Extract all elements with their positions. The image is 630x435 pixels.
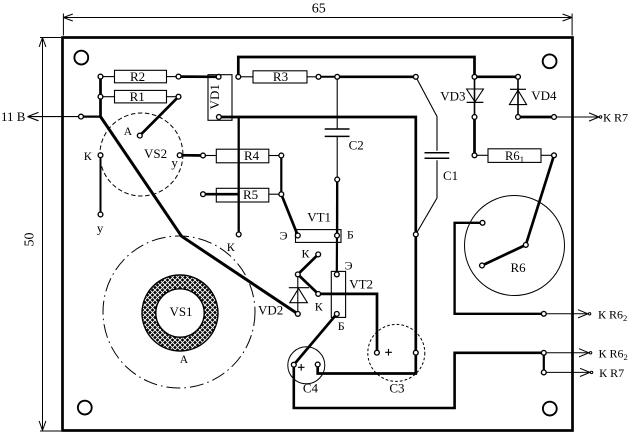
wire VD1 bottom bus: [219, 117, 416, 234]
svg-text:C3: C3: [389, 381, 404, 396]
pad VT1 emitter: [295, 233, 300, 238]
svg-text:Б: Б: [338, 319, 345, 333]
wire VS2 gate pads column: [100, 155, 102, 214]
pad K upper: [316, 252, 321, 257]
svg-text:65: 65: [312, 2, 326, 17]
pad R1 left: [98, 94, 103, 99]
svg-text:R2: R2: [130, 69, 145, 84]
wire K R7 arrow bottom: [544, 368, 593, 376]
pad output 3: [541, 370, 546, 375]
wire R3 pads link: [319, 76, 338, 78]
capacitor C2: [325, 77, 364, 180]
pad VD3 top: [472, 74, 477, 79]
pad VD4 top: [516, 74, 521, 79]
wire 11V input with arrow: [28, 112, 101, 120]
mounting hole top-left: [74, 51, 88, 65]
wire VT2 base to C4: [294, 314, 337, 365]
wire R5 to VT1 emitter: [281, 194, 298, 235]
pad C3 left: [375, 350, 380, 355]
pad R6 terminal b: [480, 263, 485, 268]
svg-text:R1: R1: [130, 89, 145, 104]
pad C4 left: [291, 362, 296, 367]
wire K R6.2 arrow 1: [544, 310, 591, 318]
resistor R1: [101, 89, 179, 104]
wire R6.1 to R6 wiper: [526, 155, 554, 245]
svg-text:К: К: [315, 299, 324, 313]
pad R3 left: [236, 74, 241, 79]
svg-text:А: А: [180, 354, 189, 366]
thyristor VS1 dash-dot outline: [103, 236, 255, 388]
pad K R7 top: [552, 115, 557, 120]
pad R4 right: [279, 153, 284, 158]
pad R6 terminal a: [480, 220, 485, 225]
wire R6 wiper to R6 terminal: [482, 245, 526, 266]
resistor R3: [238, 69, 318, 84]
diode VD3: [440, 77, 483, 117]
pad C4 right: [315, 362, 320, 367]
thyristor VS1 hatched mounting ring: [142, 275, 218, 351]
diode VD4: [509, 77, 557, 117]
svg-text:11 В: 11 В: [1, 109, 26, 124]
wire C2 to VT1 base: [336, 180, 339, 236]
mounting hole bottom-left: [78, 401, 92, 415]
wire VD3 top to VD4 top: [475, 75, 519, 78]
svg-text:К: К: [302, 247, 311, 261]
mounting hole bottom-right: [543, 402, 557, 416]
resistor R4: [203, 148, 281, 163]
pad output 2: [541, 350, 546, 355]
wire trace through R4 R5 to K via: [238, 117, 240, 234]
pad R4 left: [201, 153, 206, 158]
pad R6 wiper: [523, 243, 528, 248]
svg-text:К R62: К R62: [599, 346, 628, 362]
svg-text:Б: Б: [347, 228, 354, 242]
pad VD1 bottom: [217, 115, 222, 120]
pad C3 right: [413, 350, 418, 355]
dimension 50: [39, 38, 61, 432]
svg-text:R3: R3: [273, 69, 288, 84]
transistor VT2: [331, 271, 373, 317]
capacitor C3: [368, 324, 425, 395]
svg-text:VD2: VD2: [258, 303, 283, 318]
pad output 1: [541, 311, 546, 316]
thyristor VS2 dashed outline: [100, 113, 183, 196]
wire R1 to VS2 anode: [140, 97, 179, 136]
potentiometer R6 outline: [465, 196, 565, 296]
pad VS2 gate: [177, 153, 182, 158]
svg-text:А: А: [124, 126, 133, 138]
capacitor C4: [288, 347, 325, 396]
pad VS2 cathode: [98, 153, 103, 158]
pad R6.1 right: [552, 153, 557, 158]
svg-text:C2: C2: [349, 138, 364, 153]
pad R6.1 left: [472, 153, 477, 158]
wire R2 to VD1: [179, 75, 219, 78]
wire VD3 bottom to R6.1: [473, 117, 476, 155]
svg-text:50: 50: [23, 233, 38, 247]
svg-text:К R62: К R62: [598, 307, 627, 323]
pad VD1 top: [216, 74, 221, 79]
pad VT2 emitter: [334, 272, 339, 277]
svg-text:К: К: [84, 149, 93, 163]
pad C1 top: [413, 74, 418, 79]
pad R2 right: [176, 74, 181, 79]
svg-text:VD4: VD4: [531, 88, 557, 103]
pad C1 bottom: [413, 232, 418, 237]
svg-text:VT1: VT1: [307, 209, 331, 224]
pad R1 right: [176, 94, 181, 99]
pad R5 left: [201, 192, 206, 197]
diode VD2: [258, 274, 309, 317]
svg-text:Э: Э: [280, 229, 288, 243]
wire C4 minus to output: [294, 353, 544, 408]
transistor VT1: [296, 209, 342, 242]
pad R3 right a: [316, 74, 321, 79]
pad VT1 base: [335, 233, 340, 238]
svg-text:VS2: VS2: [144, 146, 167, 161]
svg-text:Э: Э: [345, 258, 353, 272]
pad zig middle: [295, 272, 300, 277]
svg-text:VT2: VT2: [349, 277, 373, 292]
wire main diagonal (VS1 cathode trace): [101, 117, 298, 314]
pad VD4 bottom: [516, 115, 521, 120]
svg-text:R4: R4: [244, 148, 260, 163]
pad VS2 anode: [137, 133, 142, 138]
pad VD3 bottom: [472, 115, 477, 120]
svg-text:C1: C1: [443, 168, 458, 183]
wire R4 to R5 right link: [280, 156, 282, 195]
svg-text:у: у: [97, 221, 104, 236]
dimension 65: [63, 14, 572, 36]
svg-text:К: К: [227, 240, 236, 254]
wire R5 left to center trace: [203, 193, 239, 196]
pad R2 left: [98, 74, 103, 79]
wire R3 to C1 node: [337, 75, 416, 78]
wire VD4 bottom to K R7 pad: [518, 116, 554, 119]
wire top bus: [238, 57, 474, 77]
pad 11V: [79, 114, 84, 119]
svg-text:R6: R6: [511, 260, 527, 275]
wire VT1 base to VT2 emitter: [336, 236, 338, 275]
pad VD2 bottom: [295, 312, 300, 317]
diode VD1: [207, 75, 232, 121]
wire R6 terminal to output 1: [455, 223, 544, 314]
wire VS2 gate to R4: [180, 154, 203, 157]
svg-text:C4: C4: [303, 381, 319, 396]
svg-text:R5: R5: [243, 187, 258, 202]
pad VT2 collector: [316, 292, 321, 297]
svg-text:VS1: VS1: [169, 304, 192, 319]
wire C1 node to C3: [414, 234, 417, 352]
pad R3 right b: [335, 74, 340, 79]
wire K R7 arrow top: [554, 113, 602, 121]
pad VT2 base: [334, 312, 339, 317]
resistor R5: [216, 187, 281, 202]
svg-text:R61: R61: [505, 149, 524, 165]
wire C4 plus to C3 plus: [318, 353, 416, 374]
svg-text:К R7: К R7: [599, 366, 624, 380]
wire K R6.2 arrow 2: [544, 349, 592, 357]
wire collector zigzag: [298, 254, 318, 294]
pad K via: [236, 232, 241, 237]
capacitor C1: [416, 77, 458, 235]
pad C2 bottom: [335, 177, 340, 182]
pad R5 right: [279, 192, 284, 197]
wire VT2 collector to C3: [318, 294, 377, 353]
svg-text:у: у: [171, 155, 178, 170]
board outline: [63, 38, 573, 431]
mounting hole top-right: [543, 54, 557, 68]
wire left rail R1/R2: [99, 77, 102, 117]
resistor R6.1: [475, 149, 555, 165]
pad gate bottom: [98, 212, 103, 217]
svg-text:К R7: К R7: [603, 110, 628, 124]
wire output pads link: [543, 353, 545, 373]
pads: [79, 74, 557, 375]
svg-text:VD1: VD1: [207, 84, 222, 109]
svg-text:VD3: VD3: [440, 89, 465, 104]
resistor R2: [101, 69, 179, 84]
